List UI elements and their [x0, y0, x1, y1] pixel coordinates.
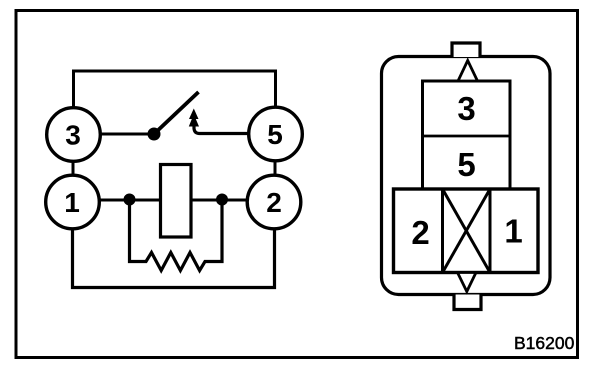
wire top rail from terminal 3 to terminal 5 [74, 71, 276, 107]
top index triangle [458, 61, 478, 82]
svg-text:1: 1 [64, 187, 80, 218]
svg-text:5: 5 [267, 119, 283, 150]
connector body outline [382, 57, 551, 295]
wire bottom rail from terminal 1 to terminal 2 [73, 228, 275, 288]
terminal 1 [46, 175, 100, 229]
connector cavity 3/5 box [423, 81, 511, 189]
connector cavity row 2/x/1 [394, 189, 539, 273]
node switch pivot [148, 128, 161, 141]
terminal 5 [249, 107, 303, 161]
node junction right [216, 194, 228, 206]
connector top tab [452, 43, 480, 57]
wire coil to terminal 2 [192, 199, 248, 202]
svg-text:B16200: B16200 [514, 333, 575, 353]
wire terminal 1 to coil [99, 199, 160, 202]
svg-text:2: 2 [411, 214, 429, 251]
relay coil L1 [161, 165, 192, 238]
svg-text:1: 1 [504, 213, 522, 250]
wire terminal 5 to terminal 2 [274, 160, 277, 176]
divider cavity 2 [441, 189, 444, 273]
bottom index triangle [458, 273, 477, 292]
svg-text:3: 3 [457, 90, 475, 127]
terminal 2 [247, 175, 301, 229]
wire switch contact to terminal 5 [194, 124, 248, 134]
terminal 3 [47, 108, 101, 162]
keyway X mark [443, 189, 491, 273]
wire switch feed from terminal 3 [100, 133, 149, 136]
switch SW1 blade [154, 92, 199, 134]
divider cavity 3/5 [423, 135, 511, 138]
divider cavity 1 [489, 189, 492, 273]
svg-text:5: 5 [457, 146, 475, 183]
node junction left [124, 194, 136, 206]
svg-text:2: 2 [266, 187, 282, 218]
svg-text:3: 3 [65, 120, 81, 151]
resistor R1 [130, 203, 223, 271]
wire terminal 3 to terminal 1 [72, 160, 75, 176]
switch SW1 fixed contact arrow [189, 109, 199, 127]
connector bottom tab [454, 295, 481, 310]
